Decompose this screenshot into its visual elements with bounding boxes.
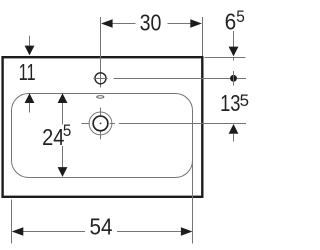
extension 54 left	[11, 200, 13, 244]
svg-text:5: 5	[236, 8, 245, 26]
drain center dot	[100, 123, 102, 125]
arrow 24_5 down	[62, 146, 64, 168]
svg-text:6: 6	[225, 9, 237, 35]
dimension dot 6_5/13_5	[230, 75, 237, 82]
tap center line to right	[114, 78, 246, 80]
extension 54 right / basin side	[192, 150, 194, 244]
tap hole	[95, 73, 106, 84]
svg-text:24: 24	[42, 124, 64, 150]
svg-text:5: 5	[240, 92, 249, 110]
drain crosshair ticks	[100, 108, 102, 116]
outer basin outline	[3, 57, 203, 197]
arrow 11 up	[25, 93, 35, 103]
svg-text:11: 11	[19, 59, 36, 85]
overflow hole	[97, 96, 104, 99]
drain inner circle	[93, 116, 108, 131]
arrow 30 right	[190, 19, 202, 27]
svg-text:54: 54	[90, 213, 113, 239]
drain outer circle	[89, 112, 112, 135]
dim line 54	[23, 231, 85, 233]
extension top edge right	[205, 57, 246, 59]
dim line 30	[113, 23, 136, 25]
arrow 30 left	[101, 19, 113, 27]
svg-text:13: 13	[220, 90, 240, 116]
arrow 6_5 down	[233, 31, 235, 47]
arrow 24_5 up	[58, 93, 68, 103]
svg-text:30: 30	[140, 10, 162, 36]
arrow 13_5 up	[229, 124, 239, 134]
tap hole centerline	[100, 17, 102, 88]
inner basin rim	[12, 94, 193, 178]
drain center line to right	[110, 123, 115, 125]
tap hole crosshair	[93, 78, 107, 80]
svg-text:5: 5	[63, 122, 71, 140]
arrow 54 right	[181, 227, 193, 235]
arrow 54 left	[12, 227, 24, 235]
extension line right edge up	[202, 17, 204, 56]
arrow 11 down	[29, 36, 31, 46]
